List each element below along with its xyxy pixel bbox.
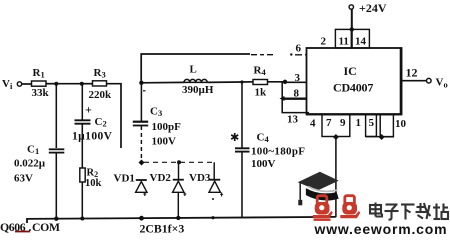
- power +24V terminal: [349, 1, 387, 48]
- xia: [401, 203, 415, 205]
- capacitor C4: [231, 82, 305, 218]
- wire pins 7,9 to ground rail: [335, 137, 337, 217]
- svg-text:100~180pF: 100~180pF: [251, 146, 305, 158]
- wire node E down to pin 8: [280, 82, 307, 101]
- svg-text:33k: 33k: [32, 87, 50, 99]
- node C4 junction: [240, 80, 243, 83]
- pin box 10 (empty): [380, 115, 406, 137]
- inductor L: [182, 64, 214, 97]
- svg-text:VD1: VD1: [114, 173, 135, 185]
- zhan: [435, 204, 437, 220]
- ground rail (common): [27, 217, 336, 223]
- watermark Q606 COM: [0, 220, 60, 234]
- svg-text:4: 4: [310, 118, 316, 130]
- diode VD3: [189, 172, 223, 200]
- svg-text:1: 1: [356, 117, 362, 129]
- svg-text:VD3: VD3: [189, 172, 211, 184]
- svg-text:www.eeworm.com: www.eeworm.com: [314, 221, 448, 235]
- svg-text:COM: COM: [32, 220, 60, 234]
- svg-text:10: 10: [395, 118, 407, 130]
- svg-text:2CB1f×3: 2CB1f×3: [140, 222, 185, 236]
- svg-text:9: 9: [340, 117, 346, 129]
- svg-text:10k: 10k: [85, 178, 102, 189]
- svg-text:5: 5: [369, 117, 375, 129]
- wire node E to pin 3: [286, 72, 307, 84]
- diode VD1: [114, 173, 148, 197]
- svg-text:0.022µ: 0.022µ: [14, 158, 46, 170]
- svg-text:13: 13: [287, 114, 299, 126]
- wire C2 to R2: [81, 124, 83, 168]
- pin box 5: [366, 115, 377, 137]
- node E junction: [283, 80, 287, 84]
- watermark text dianzi xiazaizhan: [370, 203, 448, 220]
- wire node A to node B: [57, 83, 83, 85]
- watermark logo graduation cap: [298, 172, 339, 206]
- svg-text:C4: C4: [257, 132, 270, 145]
- wire L to C4 node: [207, 81, 242, 83]
- wire C4 node to R4: [242, 81, 253, 83]
- capacitor C3: [133, 83, 181, 160]
- capacitor C1: [14, 84, 64, 219]
- wire diode cathode rail (dashed): [144, 160, 214, 179]
- pin box 14: [352, 29, 370, 48]
- svg-text:R4: R4: [254, 65, 267, 78]
- resistor R3: [89, 67, 113, 101]
- pin box 7 9: [322, 115, 350, 141]
- svg-text:1µ100V: 1µ100V: [72, 131, 113, 143]
- wire R1 to node A: [46, 83, 57, 85]
- svg-text:L: L: [190, 64, 197, 76]
- wire R4 to node E: [268, 81, 286, 83]
- svg-text:100pF: 100pF: [152, 121, 182, 133]
- svg-text:390µH: 390µH: [182, 84, 214, 96]
- resistor R2: [80, 168, 102, 190]
- svg-text:+: +: [85, 103, 92, 117]
- node D junction (diode rail): [139, 160, 145, 166]
- wire node C to L: [141, 81, 184, 83]
- wire node E down to pin 13: [282, 99, 309, 126]
- svg-text:Vo: Vo: [436, 77, 448, 90]
- svg-text:220k: 220k: [89, 89, 113, 101]
- resistor R1: [32, 67, 50, 99]
- svg-text:R1: R1: [33, 67, 45, 80]
- svg-text:CD4007: CD4007: [333, 81, 373, 95]
- op-amp IC U1 CD4007 body: [307, 48, 402, 115]
- svg-text:63V: 63V: [14, 173, 33, 185]
- wire node B to R3: [82, 83, 93, 85]
- wire R3 to corner down: [107, 84, 122, 148]
- svg-text:IC: IC: [344, 64, 357, 78]
- svg-text:6: 6: [296, 43, 302, 55]
- svg-text:100V: 100V: [152, 136, 177, 148]
- zi: [386, 203, 398, 205]
- svg-text:R3: R3: [94, 67, 106, 80]
- node A junction: [54, 82, 58, 86]
- wire R2 to rail: [81, 182, 83, 219]
- svg-text:C2: C2: [95, 116, 107, 129]
- resistor R4: [253, 65, 268, 99]
- capacitor C2 (electrolytic): [72, 84, 113, 143]
- svg-text:100V: 100V: [251, 158, 276, 170]
- watermark red bug characters: [313, 196, 361, 221]
- svg-text:C1: C1: [27, 144, 39, 157]
- dian: [370, 205, 381, 214]
- svg-text:14: 14: [355, 36, 367, 48]
- svg-text:1k: 1k: [255, 87, 268, 99]
- svg-text:.: .: [29, 220, 32, 234]
- zai: [417, 206, 426, 208]
- svg-text:7: 7: [326, 117, 332, 129]
- svg-text:2: 2: [321, 36, 327, 48]
- node C junction (L / C3 / feedback): [139, 81, 143, 85]
- svg-text:+24V: +24V: [359, 1, 387, 15]
- svg-text:VD2: VD2: [150, 172, 172, 184]
- svg-text:11: 11: [339, 36, 349, 48]
- svg-text:C3: C3: [150, 106, 162, 119]
- svg-text:3: 3: [295, 72, 301, 84]
- wire pin 12 to output Vo: [402, 66, 448, 90]
- svg-text:12: 12: [406, 66, 418, 80]
- svg-text:8: 8: [294, 88, 300, 100]
- svg-text:Vi: Vi: [2, 78, 13, 91]
- wire joining pin5 and pin10 boxes: [366, 134, 393, 140]
- node B junction: [80, 82, 84, 86]
- rail junction dots: [54, 217, 58, 221]
- pin box 11: [335, 29, 351, 48]
- wire Vi to R1: [22, 83, 32, 85]
- input terminal Vi: [2, 78, 22, 91]
- wire feedback node C up and to pin 6: [141, 43, 306, 83]
- diode VD2: [150, 162, 187, 218]
